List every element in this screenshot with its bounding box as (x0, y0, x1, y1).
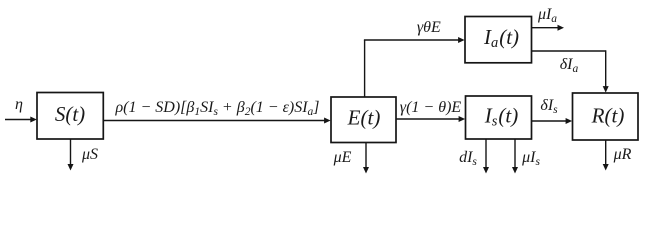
compartment box S(t) (37, 93, 103, 140)
compartment box R(t) (573, 93, 639, 140)
arrow muR down from R (603, 140, 632, 171)
arrow eta into S (5, 96, 37, 123)
arrow dIs down from Is (459, 139, 489, 174)
svg-text:μR: μR (613, 146, 632, 163)
svg-text:μE: μE (333, 149, 352, 166)
compartment box Is(t) (466, 96, 532, 139)
arrow gamma-theta-E into Ia (364, 19, 465, 43)
arrow muE down from E (333, 143, 369, 174)
compartment box Ia(t) (465, 17, 532, 63)
wire E top up (364, 40, 366, 97)
svg-text:η: η (15, 96, 23, 113)
arrow delta-Is from Is to R (532, 97, 573, 124)
svg-text:γ(1 − θ)E: γ(1 − θ)E (400, 99, 462, 116)
wire delta-Ia horizontal (532, 50, 606, 52)
arrow S to E with rate label (103, 99, 330, 124)
svg-text:R(t): R(t) (591, 104, 625, 128)
arrow muS down from S (68, 139, 99, 171)
arrow E to Is with label (396, 99, 465, 122)
svg-text:μS: μS (81, 146, 98, 163)
arrow delta-Ia down into R (560, 50, 609, 92)
svg-text:Is(t): Is(t) (484, 104, 518, 130)
svg-text:γθE: γθE (417, 19, 441, 36)
svg-text:ρ(1 − SD)[β1SIs + β2(1 − ε)SIa: ρ(1 − SD)[β1SIs + β2(1 − ε)SIa] (114, 99, 319, 118)
compartment box E(t) (331, 97, 396, 143)
svg-text:E(t): E(t) (347, 106, 381, 130)
arrow muIa right from Ia (532, 6, 565, 31)
arrow muIs down from Is (512, 139, 540, 174)
svg-text:S(t): S(t) (55, 102, 85, 126)
svg-text:Ia(t): Ia(t) (483, 25, 519, 51)
